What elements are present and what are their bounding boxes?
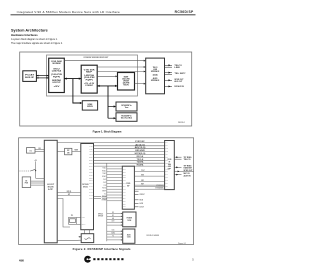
wire C3 pins <box>107 230 123 241</box>
svg-text:PQFP): PQFP) <box>53 76 60 78</box>
svg-text:RC56D/SP MODEM DEVICE SET: RC56D/SP MODEM DEVICE SET <box>84 57 109 59</box>
svg-text:RX: RX <box>165 177 168 179</box>
block line interface DAA <box>146 58 165 94</box>
svg-text:VC: VC <box>123 192 126 194</box>
svg-text:SPKROUT: SPKROUT <box>140 194 145 196</box>
svg-text:MIC: MIC <box>112 215 114 217</box>
block codec lower 2 <box>116 113 137 122</box>
svg-text:CODEC: CODEC <box>85 85 94 87</box>
wire IA out 3 <box>174 170 193 172</box>
wire output telco <box>165 64 183 69</box>
wire bus line 4 <box>94 153 165 155</box>
svg-text:MWR: MWR <box>89 160 93 162</box>
svg-text:A(15:0): A(15:0) <box>135 143 145 146</box>
svg-text:VR: VR <box>165 163 168 165</box>
svg-text:XTL: XTL <box>71 215 73 217</box>
svg-text:GEN: GEN <box>67 152 70 154</box>
svg-text:INTERFACE: INTERFACE <box>151 70 160 73</box>
svg-text:FS: FS <box>165 180 168 182</box>
wire IA out 1 <box>174 156 192 161</box>
figure 2 outer border <box>19 138 194 245</box>
wire IA out 4 <box>174 173 191 177</box>
figure 1 doc ref <box>178 121 185 124</box>
wire MDP to SDAA <box>97 75 117 77</box>
wire C left pins <box>107 169 123 201</box>
svg-text:TXD: TXD <box>89 172 93 174</box>
block host interface <box>23 71 37 82</box>
svg-text:RXIN: RXIN <box>141 175 144 177</box>
wire output handset <box>165 72 187 76</box>
svg-text:SPKR OUT: SPKR OUT <box>184 170 193 172</box>
wire MDP-SDAA bus <box>97 85 117 87</box>
svg-text:BUS I/F: BUS I/F <box>25 77 35 79</box>
wire host bus lower <box>36 77 48 79</box>
svg-text:SD: SD <box>123 203 126 205</box>
block reset gen <box>65 148 72 155</box>
svg-text:DG: DG <box>165 171 168 173</box>
svg-text:TX: TX <box>123 169 126 171</box>
svg-text:BUS: BUS <box>48 187 54 189</box>
wire eeprom lines <box>31 181 45 185</box>
svg-text:OH: OH <box>165 154 168 156</box>
wire SDAA to line interface <box>135 83 146 85</box>
wire C to IA line 1 <box>134 170 164 172</box>
svg-text:FS: FS <box>112 236 113 238</box>
svg-text:MODEM: MODEM <box>53 63 61 65</box>
crystal Y1 <box>68 215 81 225</box>
svg-text:+5V: +5V <box>54 86 61 88</box>
subheading Hardware Interfaces <box>11 33 38 37</box>
svg-text:MCS: MCS <box>89 163 93 165</box>
svg-text:R6749-1: R6749-1 <box>178 121 185 124</box>
svg-text:I/F: I/F <box>48 189 53 191</box>
svg-text:A system block diagram is show: A system block diagram is shown in Figur… <box>11 38 58 41</box>
svg-text:EYESYNC: EYESYNC <box>135 141 145 143</box>
figure 2 doc ref corner <box>178 242 186 245</box>
svg-text:Hardware Interfaces: Hardware Interfaces <box>11 33 38 37</box>
svg-text:MICIN: MICIN <box>140 200 144 202</box>
svg-text:D(7:0): D(7:0) <box>67 191 72 193</box>
block MCU U1 <box>49 58 65 92</box>
MCU column interior pin names <box>89 144 93 199</box>
svg-text:PHONE: PHONE <box>127 220 131 222</box>
block C3 <box>123 229 135 243</box>
footer logo <box>84 256 92 263</box>
wire bus line 1 <box>94 143 165 146</box>
svg-text:INT: INT <box>89 177 93 179</box>
wire vertical distribution bus <box>106 163 108 241</box>
svg-text:MIC IN: MIC IN <box>184 173 191 175</box>
svg-text:PB0: PB0 <box>89 198 93 200</box>
svg-text:Tone: Tone <box>125 107 129 109</box>
wire MCU-MDP bus <box>64 78 81 80</box>
svg-text:TEL SET/: TEL SET/ <box>174 73 186 75</box>
wire C to IA line 5 <box>134 186 164 188</box>
svg-text:TIP RING: TIP RING <box>184 165 193 167</box>
wire host connector pair <box>35 148 44 152</box>
svg-text:TSSOP): TSSOP) <box>123 85 129 87</box>
svg-text:RST: RST <box>89 180 93 182</box>
svg-text:AD(15:0): AD(15:0) <box>135 146 146 149</box>
svg-text:VREF: VREF <box>141 180 144 182</box>
wire mid text <box>98 214 104 218</box>
wire bus drop to eeprom <box>73 79 82 105</box>
svg-text:4/98: 4/98 <box>19 258 24 262</box>
header rule <box>11 14 196 15</box>
body line 2 <box>11 42 63 45</box>
svg-text:(DAA): (DAA) <box>153 73 158 76</box>
svg-text:CLK: CLK <box>89 183 93 185</box>
svg-text:Figure 1. Block Diagram: Figure 1. Block Diagram <box>93 130 122 134</box>
wire mcu-host lower bus 2 <box>57 194 81 196</box>
svg-text:TXC: TXC <box>89 169 93 171</box>
figure 2 doc ref mid <box>147 234 160 237</box>
wire bus drop to codec boxes <box>108 86 116 119</box>
IA column interior pin names <box>165 141 169 188</box>
svg-text:WaveTone/Mod: WaveTone/Mod <box>121 118 133 120</box>
wire C to IA line 4 <box>134 184 164 186</box>
svg-text:Figure 2. RC56D/SP Interface: Figure 2. RC56D/SP Interface Signals <box>73 247 131 251</box>
wire reset label <box>57 150 81 152</box>
svg-text:CODEC: CODEC <box>127 237 131 239</box>
wire bus line 8 <box>94 164 165 167</box>
wire crystal branch <box>57 199 70 228</box>
wire C to IA line 2 <box>134 175 164 177</box>
wire box1 bottom to xtal <box>57 240 78 242</box>
wire xtal stubs <box>85 230 90 234</box>
wire C left pin labels <box>102 166 107 201</box>
svg-text:IREF: IREF <box>141 184 144 186</box>
svg-text:OH2: OH2 <box>103 182 106 184</box>
svg-text:INTERFACE: INTERFACE <box>151 79 160 82</box>
svg-text:RXD: RXD <box>89 174 93 176</box>
block speaker driver <box>82 101 97 110</box>
svg-text:Integrated V.90 & 56Kflex Mode: Integrated V.90 & 56Kflex Modem Device S… <box>17 10 120 14</box>
svg-text:CK: CK <box>123 200 126 202</box>
wire C to IA line 3 <box>134 180 164 182</box>
svg-text:TIP RING: TIP RING <box>184 157 193 159</box>
svg-text:RXC: RXC <box>89 166 93 168</box>
svg-text:The major interface signals ar: The major interface signals are shown in… <box>11 42 63 45</box>
svg-text:TXCLK: TXCLK <box>137 159 145 161</box>
wire bus line 5 <box>94 156 165 158</box>
svg-text:VREF: VREF <box>102 191 106 193</box>
svg-text:HOST: HOST <box>47 184 54 186</box>
MCU xtal interior pin names <box>82 217 86 226</box>
svg-text:VC: VC <box>165 165 168 167</box>
svg-text:AUX OUT: AUX OUT <box>174 80 183 83</box>
wire host bus upper <box>36 75 48 77</box>
svg-text:RG: RG <box>123 186 126 188</box>
wire mcu right lower outs <box>94 196 108 201</box>
device-set container label <box>84 57 109 59</box>
svg-text:XTLO: XTLO <box>82 224 86 226</box>
header part number RC56D/SP <box>175 10 194 14</box>
heading System Architecture <box>11 29 48 33</box>
figure 1 caption <box>93 130 122 134</box>
wire bus line 2 <box>94 146 165 149</box>
wire MDP to line interface 2 <box>97 71 146 73</box>
block EEPROM E <box>22 177 31 188</box>
footer date <box>19 258 24 262</box>
svg-text:PROM: PROM <box>25 183 29 185</box>
wire bus line 0 <box>57 141 164 143</box>
footer page number <box>192 258 194 262</box>
block codec lower 1 <box>116 102 137 111</box>
svg-text:LINE: LINE <box>174 67 180 69</box>
svg-text:I/F: I/F <box>168 169 171 171</box>
svg-text:SD: SD <box>165 186 168 188</box>
svg-text:MCS(3:0): MCS(3:0) <box>135 153 146 155</box>
svg-text:L8571A: L8571A <box>52 70 62 73</box>
svg-text:SPK: SPK <box>112 212 114 214</box>
svg-text:VR: VR <box>123 189 126 191</box>
svg-text:MIC/AUX IN: MIC/AUX IN <box>174 85 184 88</box>
block IA column <box>165 141 175 190</box>
wire C lower right stubs <box>134 191 144 208</box>
block C2 <box>123 212 136 227</box>
svg-text:HOST I/F: HOST I/F <box>53 82 62 84</box>
svg-text:FS: FS <box>123 206 126 208</box>
svg-text:TELCO: TELCO <box>184 159 192 161</box>
figure 1 outer border <box>20 52 192 126</box>
wire bus line 6 <box>94 159 165 161</box>
svg-text:TDATA: TDATA <box>137 161 145 164</box>
svg-text:RDATA: RDATA <box>137 164 145 167</box>
svg-text:OH: OH <box>123 180 126 182</box>
svg-text:TX: TX <box>165 174 168 176</box>
svg-text:RXCLK: RXCLK <box>137 156 145 158</box>
MDP column interior pin names <box>123 169 127 209</box>
svg-text:PQFP): PQFP) <box>86 79 93 81</box>
block host bus interface column <box>44 140 57 243</box>
svg-text:DG: DG <box>123 198 126 200</box>
wire eye labels near D <box>156 185 165 190</box>
block SDAA U3 <box>118 73 135 91</box>
block host connector <box>27 148 36 154</box>
svg-text:RC56D/SP: RC56D/SP <box>175 10 194 14</box>
device-set container box <box>47 55 138 96</box>
svg-text:SCLK: SCLK <box>112 230 115 232</box>
wire output mic <box>165 85 185 88</box>
block crystal xbox <box>79 234 94 243</box>
header title <box>17 10 120 14</box>
wire MCU to line interface <box>64 60 145 62</box>
wire bus line 3 <box>94 150 165 152</box>
footer logo dashes <box>93 258 123 260</box>
block MDP column C <box>122 166 134 209</box>
wire output speaker <box>165 79 185 83</box>
svg-text:RESET: RESET <box>75 150 79 152</box>
figure 2 caption <box>73 247 131 251</box>
block MDP U2 <box>81 65 97 93</box>
svg-text:SPKRCLK: SPKRCLK <box>98 214 104 216</box>
body line 1 <box>11 38 58 41</box>
wire mode switch dashed <box>19 160 44 178</box>
svg-text:EYECLK: EYECLK <box>157 185 165 187</box>
wire C2 pins <box>107 212 123 226</box>
wire mcu-host lower bus 1 <box>57 191 81 193</box>
wire IA out 2 <box>174 165 192 169</box>
svg-text:RX: RX <box>123 171 126 173</box>
svg-text:MRD MWR: MRD MWR <box>135 150 145 152</box>
svg-text:TXOUT: TXOUT <box>141 170 145 172</box>
wire C to IA line 6 <box>134 188 164 190</box>
svg-text:OH1: OH1 <box>103 179 106 181</box>
svg-text:MRD: MRD <box>89 157 93 159</box>
block MCU column <box>81 144 94 230</box>
svg-text:MDP: MDP <box>86 72 93 74</box>
svg-text:CK: CK <box>165 183 168 185</box>
svg-text:EEPROM: EEPROM <box>87 106 93 108</box>
wire MDP to line interface 1 <box>97 66 146 68</box>
wire bus line 7 <box>94 161 165 164</box>
